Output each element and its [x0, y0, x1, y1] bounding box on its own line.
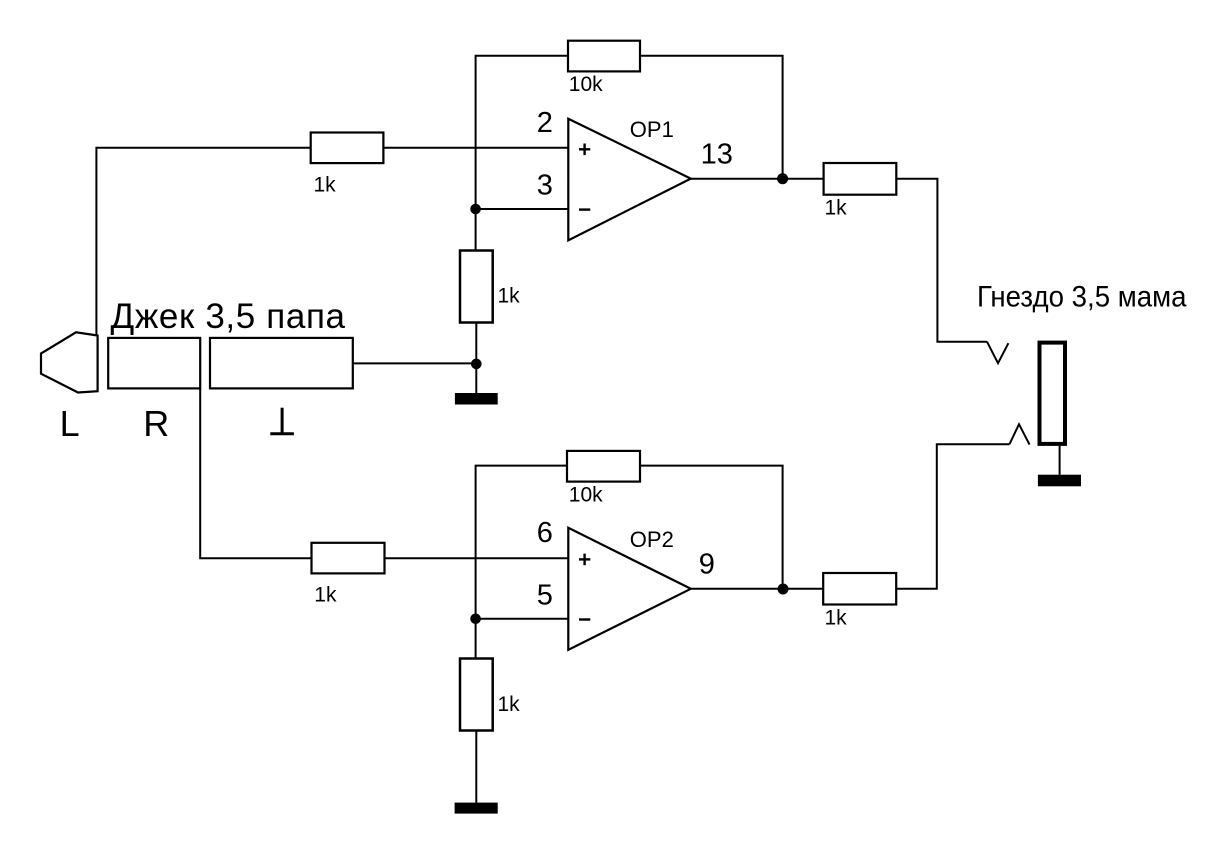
svg-text:10k: 10k	[569, 483, 603, 506]
svg-text:3: 3	[537, 170, 553, 202]
resistor R8 1k output (bottom)	[823, 573, 896, 630]
svg-text:L: L	[60, 403, 80, 444]
op-amp OP1	[568, 117, 691, 240]
ground (jack sleeve)	[455, 393, 498, 405]
svg-text:10k: 10k	[569, 73, 603, 96]
svg-text:9: 9	[699, 549, 715, 581]
jack plug tip	[41, 332, 98, 392]
wire 10k to right vertical (top)	[640, 56, 783, 179]
wire 10k to right vertical (bottom)	[640, 466, 783, 589]
node junction OP2 minus	[470, 614, 481, 625]
svg-text:1k: 1k	[825, 607, 848, 630]
wire L input top horizontal	[96, 148, 311, 336]
wire socket to ground	[1059, 446, 1061, 475]
node junction OP1 minus	[470, 204, 481, 215]
wire to socket ring contact	[896, 444, 1009, 589]
svg-text:Гнездо 3,5 мама: Гнездо 3,5 мама	[977, 281, 1187, 314]
svg-text:2: 2	[537, 107, 553, 139]
wire R5 to OP2 plus input	[385, 557, 569, 559]
resistor R4 1k output (top)	[824, 163, 897, 219]
resistor R7 1k to ground (bottom)	[460, 659, 520, 731]
ground (bottom)	[455, 803, 498, 814]
svg-text:1k: 1k	[314, 584, 337, 607]
wire feedback left vertical (bottom)	[476, 466, 567, 659]
resistor R5 1k (bottom input)	[312, 543, 385, 607]
wire OP2 output	[691, 588, 823, 590]
svg-text:6: 6	[537, 517, 553, 549]
node junction sleeve/ground (top)	[471, 359, 482, 370]
label ground pin	[270, 408, 294, 434]
wire feedback left vertical (top)	[476, 56, 568, 251]
wire sleeve to ground node	[353, 362, 477, 364]
svg-text:13: 13	[701, 139, 733, 171]
socket tip contact V	[987, 342, 1008, 364]
wire to socket tip contact	[896, 179, 987, 342]
svg-text:1k: 1k	[825, 196, 848, 219]
node junction OP2 output	[778, 584, 789, 595]
resistor R6 10k feedback (bottom)	[567, 451, 640, 507]
op-amp OP2	[568, 527, 691, 650]
ground (socket)	[1038, 475, 1081, 487]
resistor R2 10k feedback (top)	[568, 41, 640, 96]
socket ring contact caret	[1010, 424, 1030, 444]
svg-text:1k: 1k	[498, 693, 521, 716]
svg-text:OP2: OP2	[630, 527, 674, 552]
wire OP2 minus input	[476, 618, 569, 620]
wire OP1 output	[691, 178, 824, 180]
jack sleeve contact	[210, 338, 353, 389]
wire R input vertical	[200, 388, 311, 558]
wire OP1 minus input	[476, 208, 569, 210]
svg-text:5: 5	[537, 580, 553, 612]
wire R3 bottom to sleeve node	[475, 323, 477, 394]
svg-text:Джек 3,5 папа: Джек 3,5 папа	[111, 297, 346, 336]
svg-text:R: R	[143, 403, 169, 444]
jack ring contact R	[108, 338, 200, 389]
wire R7 to ground	[475, 731, 477, 803]
svg-text:1k: 1k	[498, 285, 521, 308]
socket body	[1040, 343, 1066, 444]
wire R1 to OP1 plus input	[383, 147, 568, 149]
resistor R1 1k (top input)	[311, 133, 384, 197]
resistor R3 1k to ground (top)	[460, 251, 520, 323]
svg-text:1k: 1k	[314, 173, 337, 196]
node junction OP1 output	[777, 173, 788, 184]
svg-text:OP1: OP1	[630, 117, 674, 142]
